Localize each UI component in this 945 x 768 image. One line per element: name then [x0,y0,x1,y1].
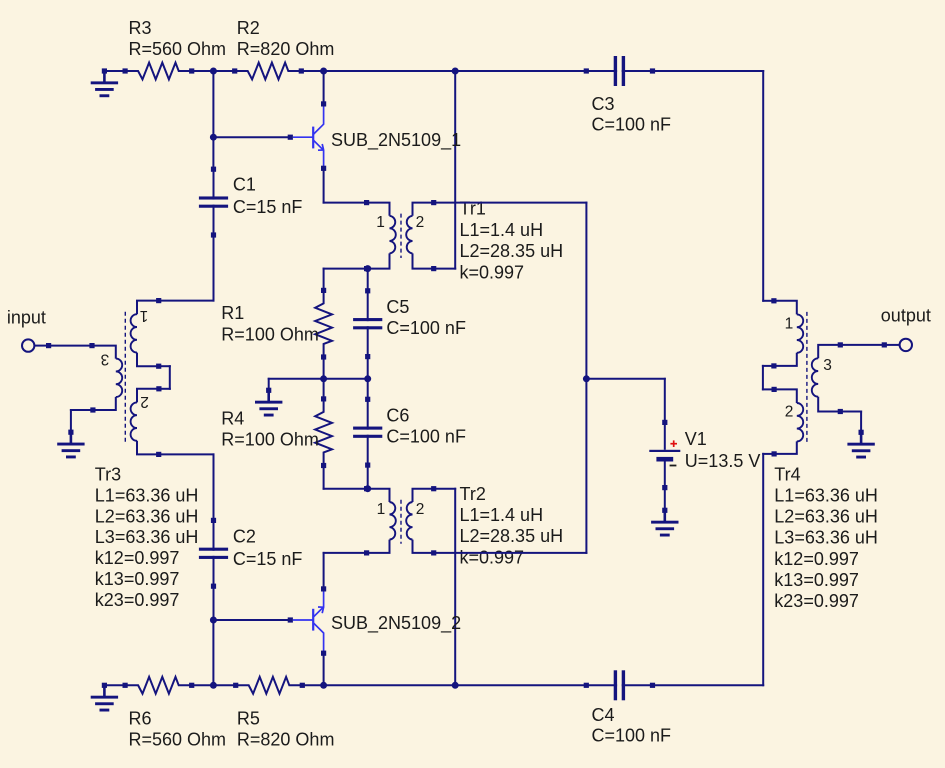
node bottom rail / T2 collector [320,682,327,689]
port input [22,339,51,351]
wire T2 collector to bottom rail [323,653,325,685]
wire right rail up to Tr4 [762,454,764,685]
wire Tr4 tap right [763,388,774,390]
wire Tr2 pin2 down to bottom rail [454,489,456,686]
capacitor C2 [199,518,228,589]
capacitor C6 [353,397,382,468]
svg-text:L1=63.36 uH: L1=63.36 uH [774,486,878,506]
node mid R1 [320,375,327,382]
resistor R4 [315,396,332,468]
svg-text:2: 2 [416,501,425,518]
node bottom rail / Tr2 return [452,682,459,689]
ground G1 (top left) [91,68,118,97]
svg-text:1: 1 [785,315,794,332]
wire Tr4 tap down [762,366,764,390]
wire Tr4 pin6 down [860,412,862,433]
svg-text:C=15 nF: C=15 nF [233,549,303,569]
wire Tr4 pin6 right [840,411,861,413]
wire Tr3 tap left [159,388,170,390]
wire base node 2 to T2 base [213,619,290,621]
transformer Tr4 [771,298,843,456]
svg-text:k13=0.997: k13=0.997 [774,570,859,590]
wire right rail down to Tr4 [762,71,764,301]
node top rail / base1 tap [210,68,217,75]
wire R4 down [323,465,325,489]
wire to Tr3 pin 1 [159,300,214,302]
svg-text:R=560 Ohm: R=560 Ohm [129,730,227,750]
svg-text:1: 1 [376,214,385,231]
transformer Tr2 [364,486,436,555]
svg-text:R2: R2 [237,18,260,38]
wire R6 to R5 [192,684,236,686]
wire C3 to right rail [652,70,763,72]
wire Tr1 pin2 to V+ rail [434,202,587,204]
svg-text:L2=28.35 uH: L2=28.35 uH [460,241,564,261]
wire base node 2 down to bottom rail [212,620,214,685]
svg-text:3: 3 [823,357,832,374]
svg-text:R1: R1 [221,303,244,323]
capacitor C1 [199,167,228,238]
wire R4 to node [324,488,368,490]
wire C6 down [367,465,369,489]
svg-text:R=820 Ohm: R=820 Ohm [237,39,335,59]
ground G6 (bottom left) [91,683,118,712]
capacitor C5 [353,288,382,359]
svg-text:C4: C4 [592,705,615,725]
wire Tr4 pin5 to output port [840,344,884,346]
svg-text:2: 2 [785,404,794,421]
wire down to T2 emitter [323,553,325,589]
svg-text:C6: C6 [386,406,409,426]
node Tr2 pin1 [364,485,371,492]
wire Tr3 pin6 left [71,409,93,411]
wire top rail to base node 1 [212,71,214,137]
svg-text:R6: R6 [129,709,152,729]
svg-text:Tr3: Tr3 [95,465,121,485]
svg-text:L3=63.36 uH: L3=63.36 uH [95,527,199,547]
svg-text:k12=0.997: k12=0.997 [95,548,180,568]
wire C4 to right rail [652,684,763,686]
svg-text:R5: R5 [237,709,260,729]
svg-text:L1=1.4 uH: L1=1.4 uH [460,505,544,525]
ground G3 (center tap) [255,388,282,417]
wire Tr1 pin3 row left [324,268,367,270]
svg-text:k23=0.997: k23=0.997 [774,591,859,611]
wire base node to T1 base [213,136,290,138]
svg-text:Tr4: Tr4 [774,464,800,484]
wire C5 to mid row [367,356,369,379]
svg-text:2: 2 [140,393,149,410]
svg-text:L3=63.36 uH: L3=63.36 uH [774,528,878,548]
wire Tr2 pin4 to V+ rail [434,552,587,554]
svg-text:R4: R4 [221,409,244,429]
transformer Tr3 [89,298,161,457]
wire top rail to T1 collector [323,71,325,104]
svg-text:C=100 nF: C=100 nF [386,427,466,447]
svg-text:C=100 nF: C=100 nF [386,318,466,338]
wire down to C2 [213,454,215,520]
wire T1 emitter down [323,168,325,202]
capacitor C4 [584,670,655,700]
svg-text:input: input [7,308,46,328]
wire top rail to Tr1 secondary bottom [454,71,456,269]
svg-text:C2: C2 [233,527,256,547]
capacitor C3 [584,56,655,86]
svg-text:L1=63.36 uH: L1=63.36 uH [95,485,199,505]
node top rail / Tr1 secondary return [452,68,459,75]
wire Tr3 pin6 down [70,410,72,432]
wire Tr2 pin3 left [324,552,367,554]
svg-text:C3: C3 [592,94,615,114]
svg-text:SUB_2N5109_2: SUB_2N5109_2 [331,613,461,634]
node bottom rail / base2 [210,682,217,689]
svg-text:L2=63.36 uH: L2=63.36 uH [95,506,199,526]
node top rail / T1 collector [320,68,327,75]
wire Tr2 pin2 right [434,488,456,490]
svg-text:output: output [881,306,931,326]
wire C2 to base node 2 [213,586,215,620]
wire Tr4 pin4 to right rail [763,453,774,455]
svg-text:2: 2 [416,214,425,231]
port output [882,339,912,351]
wire R3 to R2 [192,70,235,72]
svg-text:C=100 nF: C=100 nF [592,115,672,135]
wire down to C5 [367,269,369,292]
wire mid row to C6 [367,379,369,400]
wire R2 to C3 [301,70,586,72]
wire down to R1 [323,269,325,292]
resistor R6 [123,677,195,694]
resistor R2 [232,63,304,80]
svg-text:R3: R3 [129,18,152,38]
svg-text:Tr2: Tr2 [460,484,486,504]
wire C1 to Tr3 pin1 row [213,235,215,301]
svg-text:L2=28.35 uH: L2=28.35 uH [460,526,564,546]
wire mid row to ground [268,379,270,391]
wire R5 to C4 [302,684,586,686]
svg-text:k=0.997: k=0.997 [460,547,525,567]
wire mid row to R4 [323,379,325,400]
wire mid junction row [269,378,368,380]
svg-text:3: 3 [101,351,110,368]
svg-text:R=100 Ohm: R=100 Ohm [221,430,319,450]
battery V1 [649,420,680,490]
wire Tr3 tap down [169,366,171,389]
svg-text:k12=0.997: k12=0.997 [774,549,859,569]
node base 1 [210,134,217,141]
resistor R3 [123,63,195,80]
svg-text:SUB_2N5109_1: SUB_2N5109_1 [331,130,461,151]
svg-text:k13=0.997: k13=0.997 [95,569,180,589]
transistor U1 SUB_2N5109_1 [288,101,327,171]
resistor R5 [233,677,305,694]
transistor U2 SUB_2N5109_2 [288,586,327,656]
wire ground to R3 [104,70,125,72]
wire V+ to V1 [586,378,664,380]
wire ground to R6 [104,684,125,686]
svg-text:C1: C1 [233,174,256,194]
node base 2 [210,617,217,624]
wire T1 emitter to Tr1 pin1 [324,202,367,204]
ground G2 (Tr3) [57,430,84,459]
svg-text:R=100 Ohm: R=100 Ohm [221,324,319,344]
wire Tr3 pin4 row [159,453,214,455]
wire R1 to mid row [323,356,325,379]
wire Tr3 tap right [159,365,170,367]
svg-text:U=13.5 V: U=13.5 V [685,451,761,471]
wire down to V1 plus [664,379,666,423]
svg-text:1: 1 [140,307,149,324]
wire base node to C1 [212,137,214,169]
svg-text:1: 1 [377,501,386,518]
svg-text:C=15 nF: C=15 nF [233,197,303,217]
svg-text:V1: V1 [685,429,707,449]
wire Tr1 pin4 to top-rail vertical [434,268,456,270]
svg-text:C5: C5 [386,297,409,317]
wire V1 to ground [664,488,666,511]
svg-text:k23=0.997: k23=0.997 [95,590,180,610]
svg-text:R=820 Ohm: R=820 Ohm [237,730,335,750]
transformer Tr1 [364,200,436,271]
svg-text:L2=63.36 uH: L2=63.36 uH [774,507,878,527]
node Tr1 pin3 / C5 [364,265,371,272]
node mid C5 [364,375,371,382]
svg-text:k=0.997: k=0.997 [460,262,525,282]
wire Tr4 tap left [763,365,774,367]
wire V+ rail vertical [585,203,587,553]
wire input port to Tr3 [49,345,92,347]
ground G4 (V1) [651,508,678,537]
ground G5 (Tr4) [847,430,874,459]
svg-text:R=560 Ohm: R=560 Ohm [129,39,227,59]
svg-text:L1=1.4 uH: L1=1.4 uH [460,220,544,240]
wire right rail to Tr4 pin1 [763,300,774,302]
node V+ rail [583,375,590,382]
resistor R1 [315,288,332,360]
svg-text:C=100 nF: C=100 nF [592,726,672,746]
